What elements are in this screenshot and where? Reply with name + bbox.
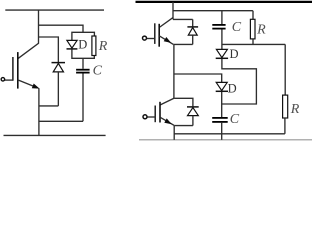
svg-text:C: C [93, 64, 103, 79]
svg-text:C: C [230, 112, 240, 127]
svg-text:D: D [78, 38, 87, 52]
svg-text:R: R [256, 23, 266, 38]
svg-text:D: D [228, 81, 237, 95]
svg-text:R: R [98, 39, 108, 54]
svg-text:D: D [230, 47, 239, 61]
svg-text:C: C [232, 20, 242, 35]
svg-text:R: R [290, 102, 300, 117]
